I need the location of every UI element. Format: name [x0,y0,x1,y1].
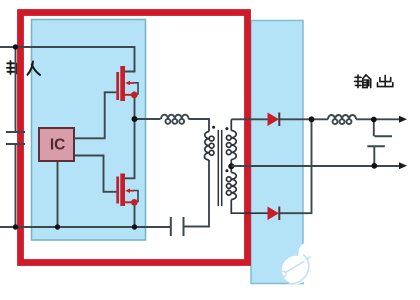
wire: output cap stubs [373,120,376,166]
svg-text:IC: IC [50,137,66,154]
wire: center tap to output return rail [231,165,399,167]
wire: IC out2 to Q2 gate [74,156,117,192]
transformer T1 [204,119,267,213]
IC U1 driver block [39,128,74,161]
phase dot secondary lower [225,169,228,172]
node: output cap bottom [371,163,377,169]
node: bus left [13,224,18,229]
primary-side shaded block [32,20,146,241]
capacitor C3 bottom plate [367,145,385,147]
rectifier shaded strip [251,21,303,284]
node: bus IC ground [55,224,60,229]
wire: input top rail to Q1 drain [0,47,135,72]
label 输入 (input) [7,61,40,75]
wire: bottom bus [0,226,171,228]
diode D1 [268,113,280,127]
wire: secondary top to rectifier rail [230,119,232,130]
output arrow top [399,116,407,123]
wire: C1 to bottom bus [15,144,17,227]
primary winding [204,132,209,161]
出 char [384,75,386,86]
output arrow bottom [399,162,407,169]
secondary upper winding [231,131,236,160]
node: output cap top [371,117,377,123]
node: half-bridge midpoint [132,116,138,122]
node: rectifier output [309,116,315,122]
secondary lower winding [231,173,236,200]
wire: Q1 source to node [134,95,136,119]
transistor Q1 [116,66,138,101]
wire: input left drop to cap [15,47,17,132]
wire: Q2 source to bus [134,203,136,228]
inductor L2 [328,115,356,119]
入 char [28,62,34,75]
diode D2 [268,207,280,221]
red highlight frame [21,13,248,263]
wire: bottom diode to top rail riser [279,119,311,213]
输 char [355,76,361,78]
core lines [217,130,219,206]
wire: node to inductor L1 [135,118,161,120]
node: bus Q2 source [132,224,137,229]
label 输出 (output) [355,75,393,88]
inductor L1 [161,115,189,119]
输 char [7,62,14,64]
capacitor C3 top plate [375,135,393,137]
wire: node to Q2 drain [125,119,135,178]
phase dot primary [212,126,215,129]
wire: L1 to transformer primary top [189,119,210,132]
node: input top [13,44,18,49]
node: center tap [228,163,234,169]
capacitor C1 top plate [6,131,25,133]
phase dot secondary upper [225,127,228,130]
wire: C2 to transformer primary bottom [184,160,210,227]
wire: IC ground pin to bus [57,161,59,227]
wire: L2 to output [356,118,400,120]
transistor Q2 [116,174,138,207]
capacitor C1 bottom plate [6,143,25,145]
wire: rectifier top rail [231,118,328,120]
capacitor C2 right plate [183,217,185,236]
watermark logo [281,243,318,285]
wire: IC out1 to Q1 gate [74,92,116,138]
wire: upper winding to center tap [230,160,232,173]
capacitor C2 left plate [170,217,172,236]
wire: lower winding to bottom diode [231,200,267,214]
